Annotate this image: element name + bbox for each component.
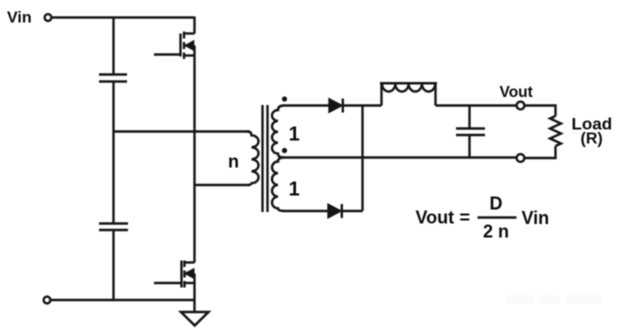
- wire center tap return: [283, 156, 517, 158]
- wire D1 cathode to inductor: [343, 104, 382, 106]
- capacitor C2: [99, 224, 128, 231]
- output terminal top: [517, 102, 525, 110]
- svg-text:Vin: Vin: [7, 9, 32, 26]
- capacitor Cout: [456, 106, 485, 158]
- transformer core: [261, 105, 263, 212]
- formula Vout = D / 2n Vin: [416, 194, 550, 242]
- svg-text:1: 1: [289, 179, 300, 201]
- svg-text:n: n: [228, 152, 239, 172]
- output terminal bottom: [517, 154, 525, 162]
- wire top rail drop to Q1 drain: [193, 17, 195, 34]
- wire Q2 source to ground: [193, 274, 195, 313]
- diode D2: [328, 204, 341, 218]
- ground: [181, 312, 209, 326]
- wire secondary bottom to D2: [283, 210, 328, 212]
- wire D2 cathode to riser: [342, 210, 363, 212]
- wire inductor to Vout terminal: [436, 104, 518, 106]
- diode D1: [329, 99, 342, 113]
- svg-text:Vout: Vout: [500, 84, 533, 101]
- transformer T1 primary winding: [247, 132, 259, 186]
- wire left branch upper: [112, 18, 114, 74]
- wire left branch middle: [112, 83, 114, 223]
- wire bottom rail: [51, 299, 196, 301]
- wire cap midpoint to primary top: [114, 130, 251, 132]
- resistor Load R: [550, 116, 561, 146]
- transformer secondary winding top: [272, 106, 284, 158]
- wire FET midpoint: [193, 46, 195, 263]
- transformer secondary winding bottom: [272, 158, 284, 212]
- svg-text:=: =: [460, 208, 471, 228]
- wire top rail: [52, 16, 195, 18]
- phase dot bottom: [282, 148, 287, 153]
- svg-text:2 n: 2 n: [483, 222, 509, 242]
- transistor Q1: [154, 32, 195, 60]
- wire secondary top to D1: [283, 104, 329, 106]
- svg-text:Vin: Vin: [522, 208, 550, 228]
- input terminal top: [45, 14, 52, 21]
- wire load bottom to output terminal: [525, 146, 556, 158]
- svg-text:(R): (R): [581, 131, 603, 148]
- wire left branch lower: [112, 231, 114, 300]
- capacitor C1: [99, 75, 127, 82]
- svg-text:1: 1: [289, 124, 300, 146]
- phase dot top: [282, 96, 287, 101]
- inductor L1: [380, 83, 437, 105]
- input terminal bottom: [44, 297, 51, 304]
- wire diode cathode junction riser: [361, 106, 363, 212]
- svg-text:D: D: [490, 194, 503, 214]
- svg-text:Vout: Vout: [416, 208, 455, 228]
- transistor Q2: [154, 261, 195, 288]
- wire Vout to load: [525, 106, 556, 117]
- faint watermark: [506, 295, 602, 304]
- wire primary bottom lead: [195, 184, 251, 186]
- formula fraction bar: [478, 216, 517, 219]
